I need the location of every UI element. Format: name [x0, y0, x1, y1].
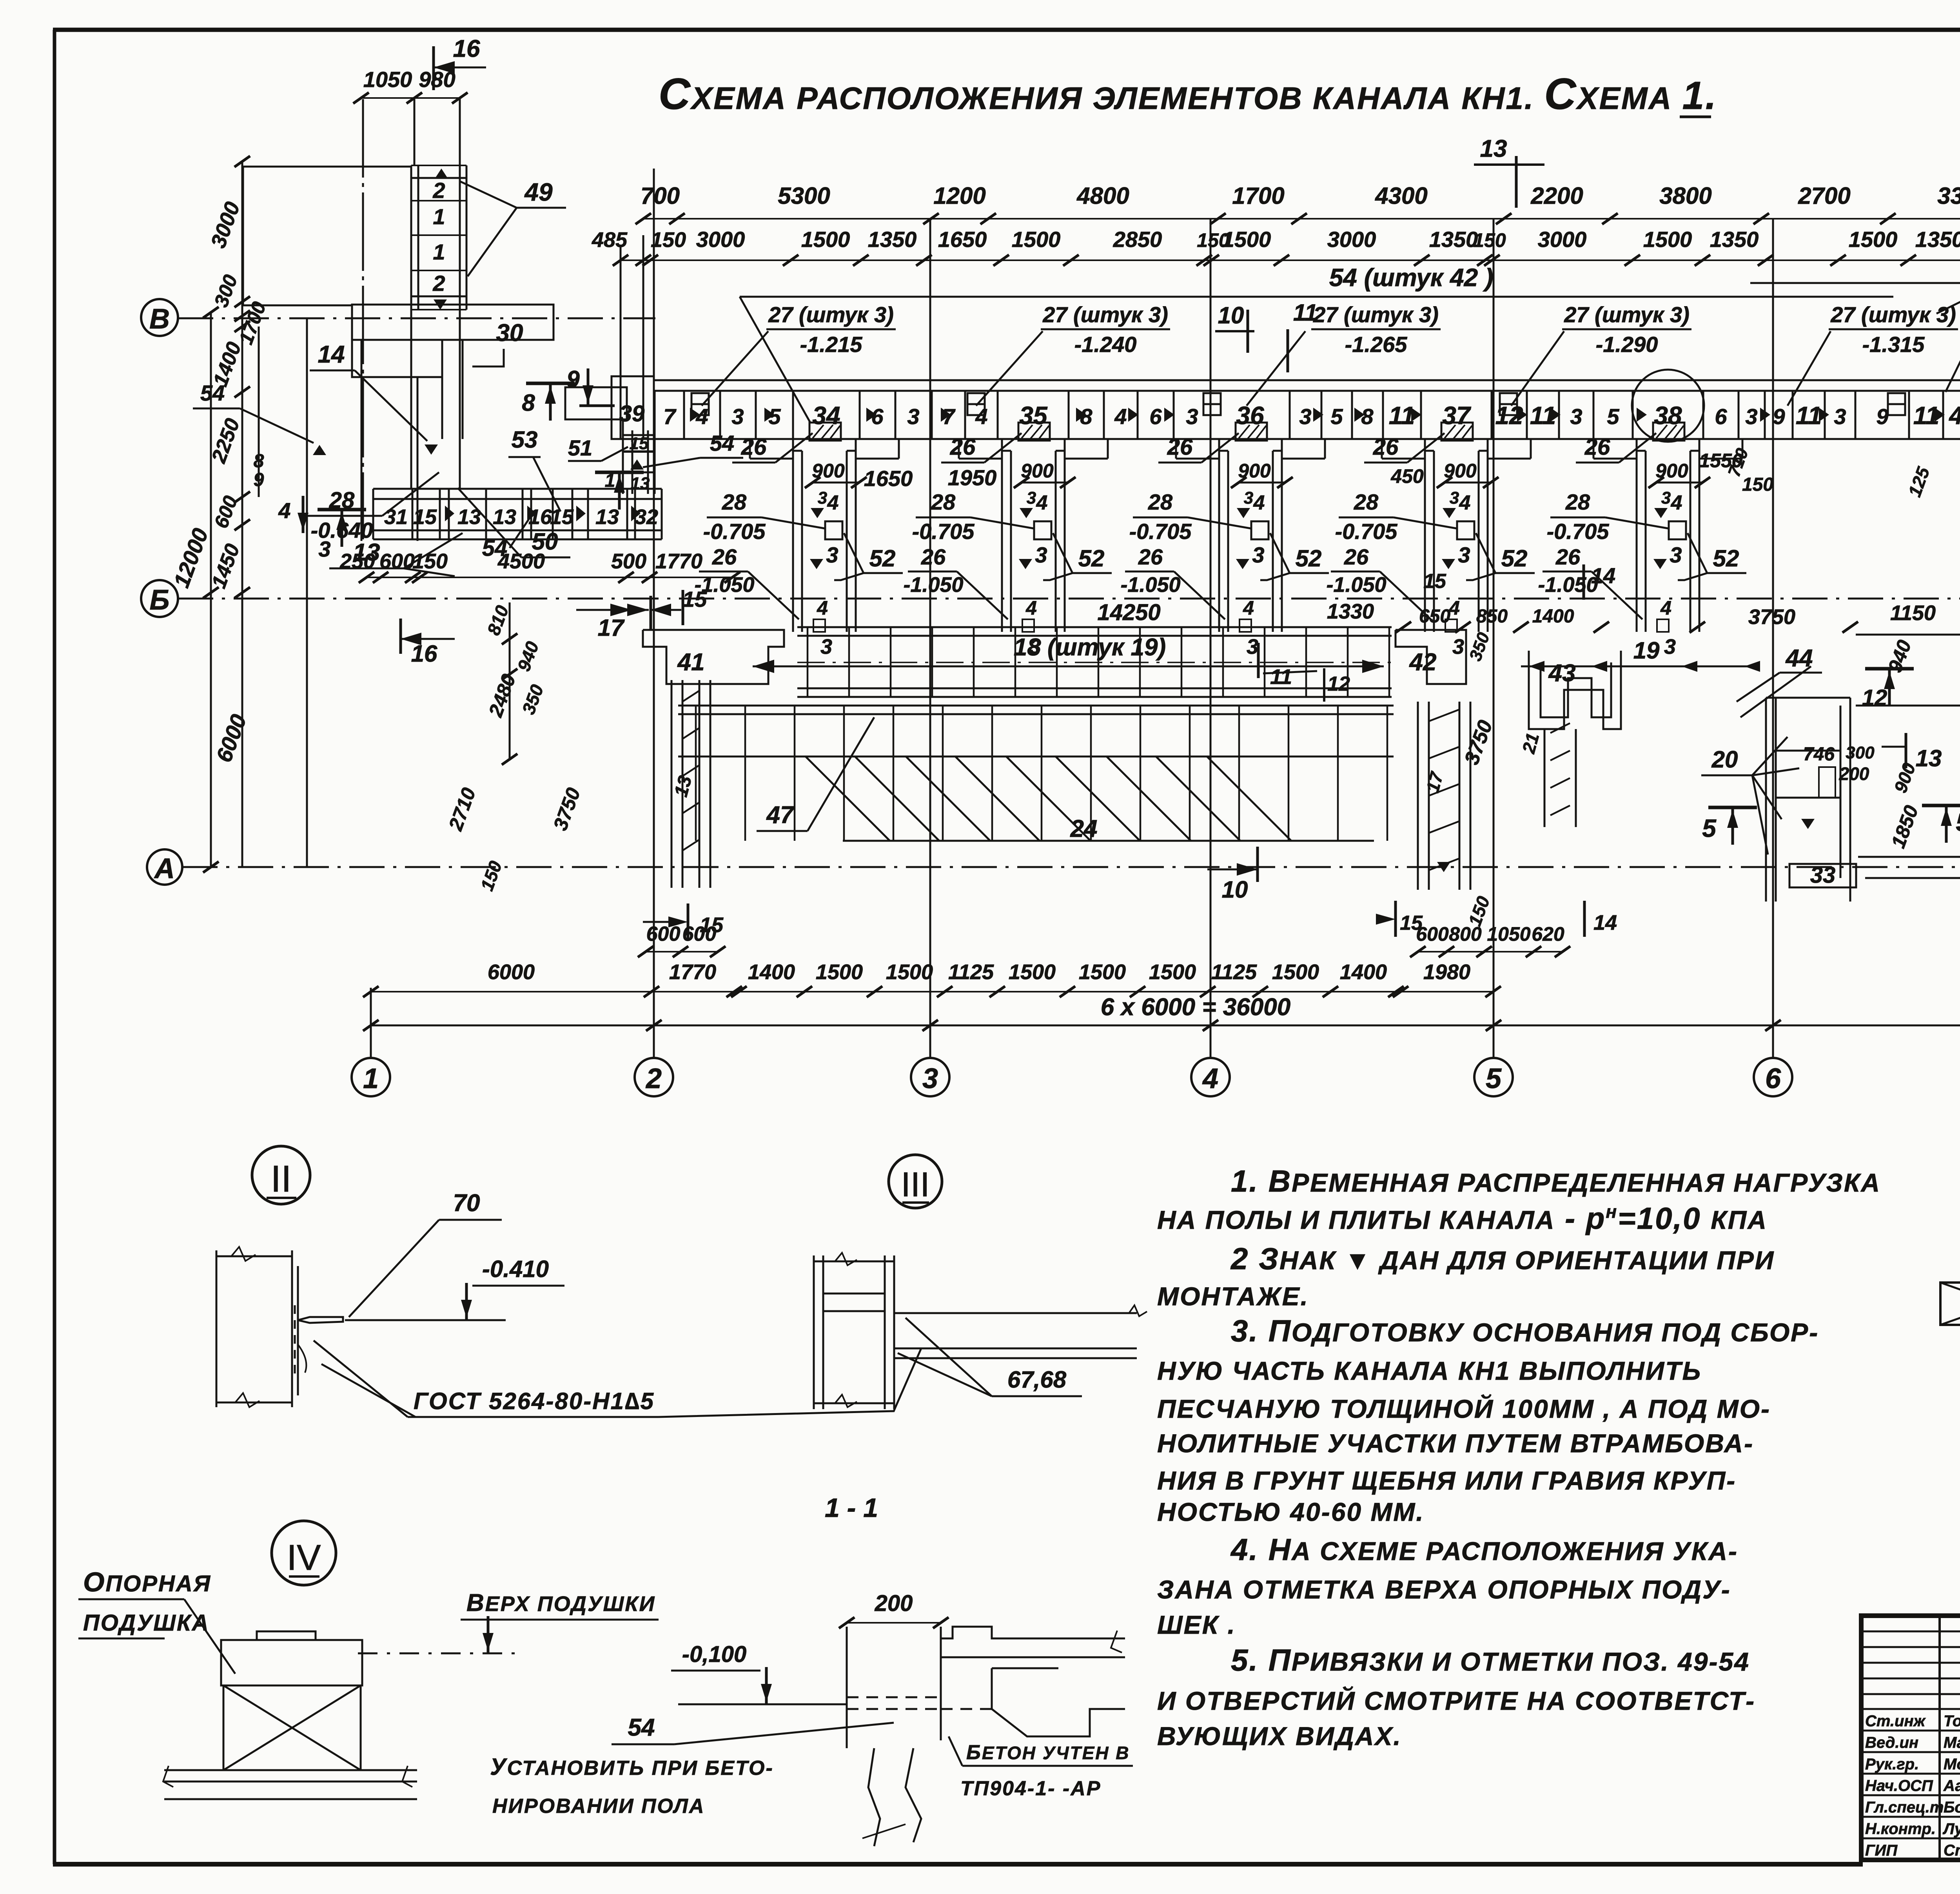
svg-text:Нач.ОСП: Нач.ОСП — [1865, 1777, 1933, 1794]
svg-text:3: 3 — [1299, 404, 1311, 429]
svg-text:26: 26 — [921, 544, 946, 569]
svg-text:15: 15 — [550, 505, 574, 529]
svg-text:Ст.инж: Ст.инж — [1865, 1713, 1926, 1730]
section marks 10 11 top — [1215, 299, 1318, 372]
svg-text:37: 37 — [1442, 401, 1472, 430]
svg-text:III: III — [901, 1165, 929, 1204]
label 51 left — [568, 435, 628, 461]
svg-text:1500: 1500 — [816, 960, 863, 984]
pit structure right of col6 — [1740, 666, 1856, 902]
svg-text:4300: 4300 — [1375, 183, 1427, 209]
svg-text:150: 150 — [1473, 229, 1506, 251]
svg-text:А: А — [154, 853, 175, 884]
label 1-1 — [825, 1493, 878, 1523]
svg-text:IV: IV — [287, 1538, 321, 1578]
detail IV callout circle — [272, 1521, 336, 1585]
detail III callout circle — [889, 1155, 942, 1208]
section mark 11 mid — [1258, 643, 1317, 689]
svg-text:1: 1 — [433, 204, 445, 229]
svg-text:15: 15 — [630, 434, 649, 453]
lower-left plate strip 31..32 — [373, 489, 662, 539]
svg-text:ПЕСЧАНУЮ ТОЛЩИНОЙ 100ММ , А: ПЕСЧАНУЮ ТОЛЩИНОЙ 100ММ , А ПОД МО- — [1157, 1394, 1771, 1423]
svg-text:3: 3 — [1452, 635, 1464, 659]
label 54 under strip — [482, 517, 530, 561]
label 50 — [458, 488, 570, 557]
svg-text:Луценко: Луценко — [1942, 1820, 1960, 1838]
svg-text:1050: 1050 — [1487, 923, 1530, 945]
section mark 10 bottom — [1207, 847, 1258, 903]
svg-text:15: 15 — [1423, 570, 1446, 593]
svg-text:70: 70 — [453, 1190, 480, 1217]
svg-text:1500: 1500 — [1849, 227, 1898, 252]
plate strip numbers — [663, 401, 1960, 430]
svg-text:38: 38 — [1654, 401, 1682, 430]
svg-text:1330: 1330 — [1327, 600, 1374, 623]
sheet title — [659, 69, 1717, 118]
svg-text:18 (штук 19): 18 (штук 19) — [1014, 634, 1166, 661]
svg-text:11: 11 — [1293, 299, 1318, 326]
svg-text:НУЮ ЧАСТЬ КАНАЛА КН1 ВЫПОЛ: НУЮ ЧАСТЬ КАНАЛА КН1 ВЫПОЛНИТЬ — [1157, 1356, 1702, 1385]
svg-text:5. ПРИВЯЗКИ И ОТМЕТКИ ПОЗ.: 5. ПРИВЯЗКИ И ОТМЕТКИ ПОЗ. 49-54 — [1231, 1643, 1750, 1677]
svg-text:13: 13 — [1480, 135, 1507, 162]
svg-text:250: 250 — [339, 550, 375, 573]
svg-text:3: 3 — [1186, 404, 1198, 429]
svg-text:1350: 1350 — [868, 227, 917, 252]
svg-text:1700: 1700 — [1232, 183, 1284, 209]
svg-text:БЕТОН УЧТЕН В: БЕТОН УЧТЕН В — [966, 1741, 1130, 1764]
svg-text:-0.410: -0.410 — [482, 1256, 549, 1282]
svg-text:27 (штук 3): 27 (штук 3) — [1564, 302, 1690, 327]
svg-text:1500: 1500 — [1272, 960, 1319, 984]
leaders for 27 labels — [702, 331, 1831, 406]
svg-text:Моргунов: Моргунов — [1944, 1756, 1960, 1773]
label 54 left — [193, 381, 326, 455]
svg-text:33: 33 — [1810, 862, 1836, 888]
svg-text:34: 34 — [812, 401, 840, 430]
svg-text:-1.315: -1.315 — [1862, 332, 1925, 357]
svg-text:52: 52 — [1501, 545, 1528, 571]
svg-text:3: 3 — [1244, 488, 1253, 508]
svg-text:-0.705: -0.705 — [1547, 519, 1610, 544]
svg-text:1500: 1500 — [801, 227, 850, 252]
left vertical dim chain — [169, 156, 270, 873]
section mark 16 top-left — [434, 35, 486, 90]
svg-text:Н.контр.: Н.контр. — [1865, 1820, 1936, 1838]
svg-text:4. НА СХЕМЕ РАСПОЛОЖЕНИЯ УКА: 4. НА СХЕМЕ РАСПОЛОЖЕНИЯ УКА- — [1230, 1532, 1738, 1567]
bay pit 36 — [1176, 423, 1325, 632]
svg-text:700: 700 — [641, 183, 680, 209]
svg-text:850: 850 — [1476, 606, 1508, 627]
svg-text:4: 4 — [817, 597, 828, 619]
svg-text:14250: 14250 — [1097, 600, 1160, 625]
svg-text:1: 1 — [363, 1063, 379, 1094]
bay pit 35 — [959, 423, 1108, 632]
svg-text:16: 16 — [453, 35, 480, 62]
svg-text:200: 200 — [875, 1591, 913, 1616]
svg-text:2: 2 — [645, 1063, 662, 1094]
svg-text:49: 49 — [524, 178, 553, 206]
svg-text:8: 8 — [1361, 404, 1374, 429]
svg-text:450: 450 — [1390, 465, 1424, 487]
svg-text:800: 800 — [1449, 923, 1482, 945]
svg-text:5300: 5300 — [778, 183, 830, 209]
label 49 — [459, 178, 566, 276]
svg-text:26: 26 — [1138, 544, 1163, 569]
section mark 5 right — [1922, 805, 1960, 843]
svg-text:2850: 2850 — [1113, 227, 1162, 252]
svg-text:26: 26 — [1167, 434, 1193, 460]
svg-text:1400: 1400 — [1340, 960, 1387, 984]
svg-text:500: 500 — [611, 550, 646, 573]
axis line Б — [141, 580, 1960, 617]
svg-text:650: 650 — [1419, 606, 1450, 627]
axis line А — [147, 849, 1960, 885]
axis line B (В) — [141, 299, 655, 336]
svg-text:1770: 1770 — [655, 550, 702, 573]
svg-text:26: 26 — [1344, 544, 1369, 569]
detail 1-1 drawing — [839, 1591, 1125, 1846]
svg-text:-1.050: -1.050 — [903, 573, 963, 597]
bay 35 labels — [903, 433, 1112, 659]
detail circle around 38 — [1632, 370, 1704, 442]
marks 4 and 3 left of strip — [278, 496, 366, 561]
svg-text:54: 54 — [710, 431, 734, 455]
svg-text:-1.215: -1.215 — [800, 332, 863, 357]
svg-text:НА ПОЛЫ И ПЛИТЫ КАНАЛА - р: НА ПОЛЫ И ПЛИТЫ КАНАЛА - рн=10,0 КПА — [1157, 1201, 1768, 1235]
svg-text:13: 13 — [1916, 745, 1942, 771]
bay pit 38 — [1593, 423, 1742, 632]
section mark 12 — [1862, 669, 1914, 711]
svg-text:1950: 1950 — [948, 465, 997, 490]
label 13 left — [329, 533, 463, 576]
svg-text:620: 620 — [1532, 923, 1564, 945]
detail IV pedestal — [163, 1631, 417, 1799]
svg-text:13: 13 — [457, 505, 481, 529]
section marks 15 17 at axis Б — [576, 587, 707, 641]
labels 27 (штук 3) with elevations — [766, 302, 1958, 357]
svg-text:9: 9 — [1876, 404, 1888, 429]
svg-text:28: 28 — [1354, 490, 1379, 514]
svg-text:20: 20 — [1711, 746, 1738, 773]
svg-text:600: 600 — [646, 923, 681, 945]
svg-text:980: 980 — [419, 67, 455, 92]
svg-text:-1.290: -1.290 — [1596, 332, 1658, 357]
svg-text:3: 3 — [1834, 404, 1846, 429]
anchor plates on strip — [691, 393, 1905, 415]
svg-text:150: 150 — [1742, 474, 1773, 495]
svg-text:52: 52 — [1713, 545, 1739, 571]
svg-text:52: 52 — [1078, 545, 1105, 571]
svg-text:2: 2 — [432, 271, 445, 296]
svg-text:24: 24 — [1070, 815, 1098, 842]
bottom dim row detailed — [363, 960, 1501, 997]
general notes — [1157, 1164, 1881, 1751]
svg-text:ГОСТ 5264-80-Н1∆5: ГОСТ 5264-80-Н1∆5 — [414, 1388, 655, 1414]
rotated dims left of col2 — [444, 602, 584, 893]
svg-text:1500: 1500 — [1643, 227, 1692, 252]
svg-text:1350: 1350 — [1710, 227, 1759, 252]
svg-text:ОПОРНАЯ: ОПОРНАЯ — [83, 1567, 211, 1597]
svg-text:3800: 3800 — [1659, 183, 1711, 209]
leader fan to plates near 40 — [1750, 283, 1960, 392]
svg-text:3000: 3000 — [696, 227, 745, 252]
svg-text:-1.240: -1.240 — [1074, 332, 1137, 357]
right vertical channel before col 42 — [1418, 702, 1470, 890]
svg-text:1400: 1400 — [1532, 606, 1574, 627]
svg-text:150: 150 — [651, 228, 686, 252]
bay 34 labels — [694, 433, 903, 659]
svg-text:1500: 1500 — [1012, 227, 1061, 252]
svg-text:4: 4 — [975, 404, 987, 429]
svg-text:4800: 4800 — [1076, 183, 1129, 209]
svg-text:3: 3 — [1247, 635, 1258, 659]
svg-text:43: 43 — [1548, 660, 1576, 687]
svg-text:27 (штук 3): 27 (штук 3) — [1042, 302, 1168, 327]
svg-text:14: 14 — [1593, 911, 1617, 934]
svg-text:1. ВРЕМЕННАЯ РАСПРЕДЕЛЕННАЯ: 1. ВРЕМЕННАЯ РАСПРЕДЕЛЕННАЯ НАГРУЗКА — [1231, 1164, 1881, 1198]
svg-text:2200: 2200 — [1530, 183, 1583, 209]
svg-text:1200: 1200 — [933, 183, 985, 209]
detail 1-1 elevation -0.100 — [671, 1642, 847, 1704]
svg-text:4500: 4500 — [497, 550, 545, 573]
svg-text:28: 28 — [1565, 490, 1590, 514]
diagonal braces (pos 24) — [806, 757, 1374, 841]
svg-text:14: 14 — [1591, 563, 1615, 588]
label ГОСТ 5264-80-Н1∆5 — [314, 1341, 921, 1417]
svg-text:3: 3 — [1661, 488, 1671, 508]
svg-text:ВУЮЩИХ ВИДАХ.: ВУЮЩИХ ВИДАХ. — [1157, 1722, 1402, 1751]
svg-text:-0,100: -0,100 — [682, 1642, 746, 1667]
bay pit 37 — [1382, 423, 1531, 632]
svg-text:6: 6 — [1149, 404, 1162, 429]
section mark 13 top — [1474, 135, 1544, 208]
plan left edge verticals — [307, 317, 417, 867]
label Бетон учтен в — [949, 1736, 1133, 1800]
svg-text:26: 26 — [1555, 544, 1581, 569]
column axes 1-7 — [352, 169, 1960, 1096]
svg-text:3: 3 — [1745, 404, 1757, 429]
title block — [1861, 1616, 1960, 1860]
svg-text:ШЕК .: ШЕК . — [1157, 1610, 1236, 1639]
detail II callout circle — [252, 1146, 310, 1204]
detail II label 70 — [349, 1190, 502, 1317]
svg-text:6: 6 — [1715, 404, 1727, 429]
svg-text:9: 9 — [1773, 404, 1785, 429]
svg-text:17: 17 — [598, 615, 625, 641]
svg-text:3: 3 — [818, 488, 827, 508]
svg-text:Вед.ин: Вед.ин — [1865, 1734, 1918, 1751]
svg-text:4: 4 — [1253, 492, 1265, 514]
svg-text:3. ПОДГОТОВКУ ОСНОВАНИЯ ПОД: 3. ПОДГОТОВКУ ОСНОВАНИЯ ПОД СБОР- — [1231, 1313, 1819, 1348]
svg-text:-1.050: -1.050 — [1326, 573, 1386, 597]
svg-text:Гл.спец.т: Гл.спец.т — [1865, 1799, 1944, 1816]
svg-text:Рук.гр.: Рук.гр. — [1865, 1756, 1919, 1773]
svg-text:Сташевс: Сташевс — [1944, 1842, 1960, 1859]
arrows inside strip — [690, 408, 1945, 422]
svg-text:1650: 1650 — [938, 227, 987, 252]
label 28 -0.640 — [302, 472, 439, 542]
svg-text:4: 4 — [1025, 597, 1037, 619]
svg-text:3: 3 — [1664, 635, 1676, 659]
svg-text:4: 4 — [1036, 492, 1048, 514]
svg-text:27 (штук 3): 27 (штук 3) — [1313, 302, 1439, 327]
svg-text:13: 13 — [595, 505, 619, 529]
svg-text:1 - 1: 1 - 1 — [825, 1493, 878, 1523]
svg-text:-1.050: -1.050 — [1120, 573, 1180, 597]
svg-text:746: 746 — [1803, 744, 1835, 765]
svg-text:3: 3 — [1035, 542, 1047, 567]
svg-text:-0.705: -0.705 — [703, 519, 766, 544]
svg-text:3: 3 — [1458, 542, 1470, 567]
svg-text:1500: 1500 — [1079, 960, 1126, 984]
svg-text:3: 3 — [907, 404, 919, 429]
right vertical dim chain — [1699, 320, 1960, 643]
svg-text:-1.050: -1.050 — [1538, 573, 1598, 597]
section mark 13 right — [1882, 733, 1942, 771]
svg-text:4: 4 — [1202, 1063, 1218, 1094]
svg-text:53: 53 — [512, 426, 538, 453]
svg-text:3: 3 — [1670, 542, 1682, 567]
svg-text:13: 13 — [493, 505, 516, 529]
svg-text:19: 19 — [1633, 637, 1660, 664]
svg-text:В: В — [149, 303, 170, 335]
section mark 16 mid-left — [401, 619, 455, 667]
svg-text:150: 150 — [412, 550, 448, 573]
left tower with plates 2 1 1 2 (pos 49) — [411, 99, 466, 489]
svg-text:52: 52 — [1296, 545, 1322, 571]
svg-text:5: 5 — [1607, 404, 1619, 429]
svg-text:3000: 3000 — [1538, 227, 1587, 252]
signature rows — [1865, 1713, 1960, 1859]
label 54 (штук 42) — [740, 263, 1893, 423]
svg-text:-0.705: -0.705 — [1129, 519, 1192, 544]
label 485 vertical guides — [621, 235, 643, 439]
svg-text:26: 26 — [712, 544, 737, 569]
svg-text:4: 4 — [1459, 492, 1471, 514]
section mark 15 14 right of Б — [1423, 563, 1615, 600]
svg-text:1150: 1150 — [1890, 601, 1936, 625]
svg-text:1125: 1125 — [1211, 960, 1257, 984]
inter-bay dims — [864, 465, 1774, 495]
svg-text:4: 4 — [1671, 492, 1682, 514]
bottom small dims 600 800 1050 620 / 15 14 — [1376, 901, 1617, 957]
label Опорная подушка — [78, 1567, 235, 1674]
svg-text:1050: 1050 — [363, 67, 412, 92]
svg-text:ГИП: ГИП — [1865, 1842, 1898, 1859]
label 30 — [472, 319, 523, 366]
svg-text:30: 30 — [496, 319, 523, 347]
detail 1-1 label 54 — [490, 1714, 894, 1818]
svg-text:УСТАНОВИТЬ ПРИ БЕТО-: УСТАНОВИТЬ ПРИ БЕТО- — [490, 1754, 774, 1780]
svg-text:1500: 1500 — [886, 960, 933, 984]
svg-text:-1.265: -1.265 — [1345, 332, 1408, 357]
small marks 8 9 near left — [254, 451, 264, 490]
structure 43 outline — [1529, 651, 1621, 827]
svg-text:3750: 3750 — [1748, 605, 1795, 629]
svg-text:1350: 1350 — [1915, 227, 1960, 252]
top dimension row 1 — [635, 183, 1960, 224]
svg-text:4: 4 — [1114, 404, 1127, 429]
label Верх подушки — [358, 1589, 659, 1653]
svg-text:II: II — [270, 1158, 291, 1200]
svg-text:54: 54 — [628, 1714, 655, 1741]
svg-text:13: 13 — [631, 474, 650, 493]
section mark 5 left — [1702, 807, 1757, 845]
label 12 arrow mid — [1324, 668, 1350, 702]
svg-text:НОЛИТНЫЕ УЧАСТКИ ПУТЕМ ВТРА: НОЛИТНЫЕ УЧАСТКИ ПУТЕМ ВТРАМБОВА- — [1157, 1429, 1754, 1458]
dim 1050 980 — [353, 67, 468, 103]
label 14 — [310, 341, 438, 455]
svg-text:28: 28 — [722, 490, 747, 514]
svg-text:5: 5 — [1702, 814, 1717, 842]
svg-text:6000: 6000 — [488, 960, 535, 984]
label 54 right of 39 — [643, 431, 743, 467]
svg-text:ПОДУШКА: ПОДУШКА — [83, 1610, 210, 1636]
svg-text:39: 39 — [619, 401, 645, 426]
svg-text:5: 5 — [1486, 1063, 1502, 1094]
detail III drawing — [814, 1253, 1147, 1409]
svg-text:200: 200 — [1839, 764, 1869, 784]
plate 39 column below — [595, 419, 655, 510]
svg-text:-0.705: -0.705 — [912, 519, 975, 544]
legend symbol: concrete box — [1940, 1283, 1960, 1325]
svg-text:16: 16 — [411, 640, 437, 667]
svg-text:НИРОВАНИИ ПОЛА: НИРОВАНИИ ПОЛА — [492, 1795, 705, 1818]
svg-text:5: 5 — [1330, 404, 1343, 429]
svg-text:Толмачева: Толмачева — [1944, 1713, 1960, 1730]
svg-text:15: 15 — [1400, 912, 1423, 934]
svg-text:32: 32 — [635, 505, 658, 529]
svg-text:4: 4 — [1660, 597, 1671, 619]
block at axis В left — [352, 305, 627, 439]
svg-text:3: 3 — [318, 537, 330, 561]
svg-text:2: 2 — [432, 178, 445, 203]
svg-text:10: 10 — [1218, 302, 1244, 328]
right side structures between 44 and edge — [1856, 193, 1960, 902]
svg-text:3: 3 — [922, 1063, 938, 1094]
svg-text:ЗАНА ОТМЕТКА ВЕРХА ОПОРНЫХ: ЗАНА ОТМЕТКА ВЕРХА ОПОРНЫХ ПОДУ- — [1157, 1575, 1731, 1604]
svg-text:3: 3 — [1252, 542, 1264, 567]
label 18 (штук 19) — [753, 634, 1384, 673]
svg-text:12: 12 — [1862, 685, 1887, 711]
bay 36 labels — [1120, 433, 1329, 659]
svg-text:1125: 1125 — [948, 960, 994, 984]
svg-text:26: 26 — [741, 434, 767, 460]
svg-text:2700: 2700 — [1798, 183, 1850, 209]
left vertical channel at col2 — [671, 680, 710, 888]
svg-text:1980: 1980 — [1423, 960, 1470, 984]
svg-text:6 х 6000 = 36000: 6 х 6000 = 36000 — [1101, 994, 1290, 1021]
svg-text:3: 3 — [820, 635, 832, 659]
rotated dims near col42 — [1460, 630, 1543, 929]
svg-text:11: 11 — [1796, 401, 1822, 430]
svg-text:35: 35 — [1019, 401, 1048, 430]
plate strip dividers — [655, 391, 1960, 439]
bay 38 labels — [1538, 433, 1746, 659]
svg-text:3: 3 — [1450, 488, 1459, 508]
channel strip 18 (штук 19) — [797, 627, 1392, 697]
svg-text:28: 28 — [1148, 490, 1173, 514]
dim row 250 600 150 4500 500 1770 — [339, 550, 740, 583]
svg-text:11: 11 — [1270, 665, 1292, 689]
svg-text:2 ЗНАК ▼ ДАН ДЛЯ ОРИЕНТАЦИ: 2 ЗНАК ▼ ДАН ДЛЯ ОРИЕНТАЦИИ ПРИ — [1230, 1241, 1775, 1276]
svg-text:150: 150 — [1197, 229, 1230, 251]
top dimension row 2 — [592, 227, 1960, 266]
rotated dims right area — [1884, 599, 1960, 954]
svg-text:4: 4 — [827, 492, 839, 514]
marks 8 9 at block — [522, 366, 615, 421]
bottom small dims 600 600 / 15 — [638, 903, 726, 957]
